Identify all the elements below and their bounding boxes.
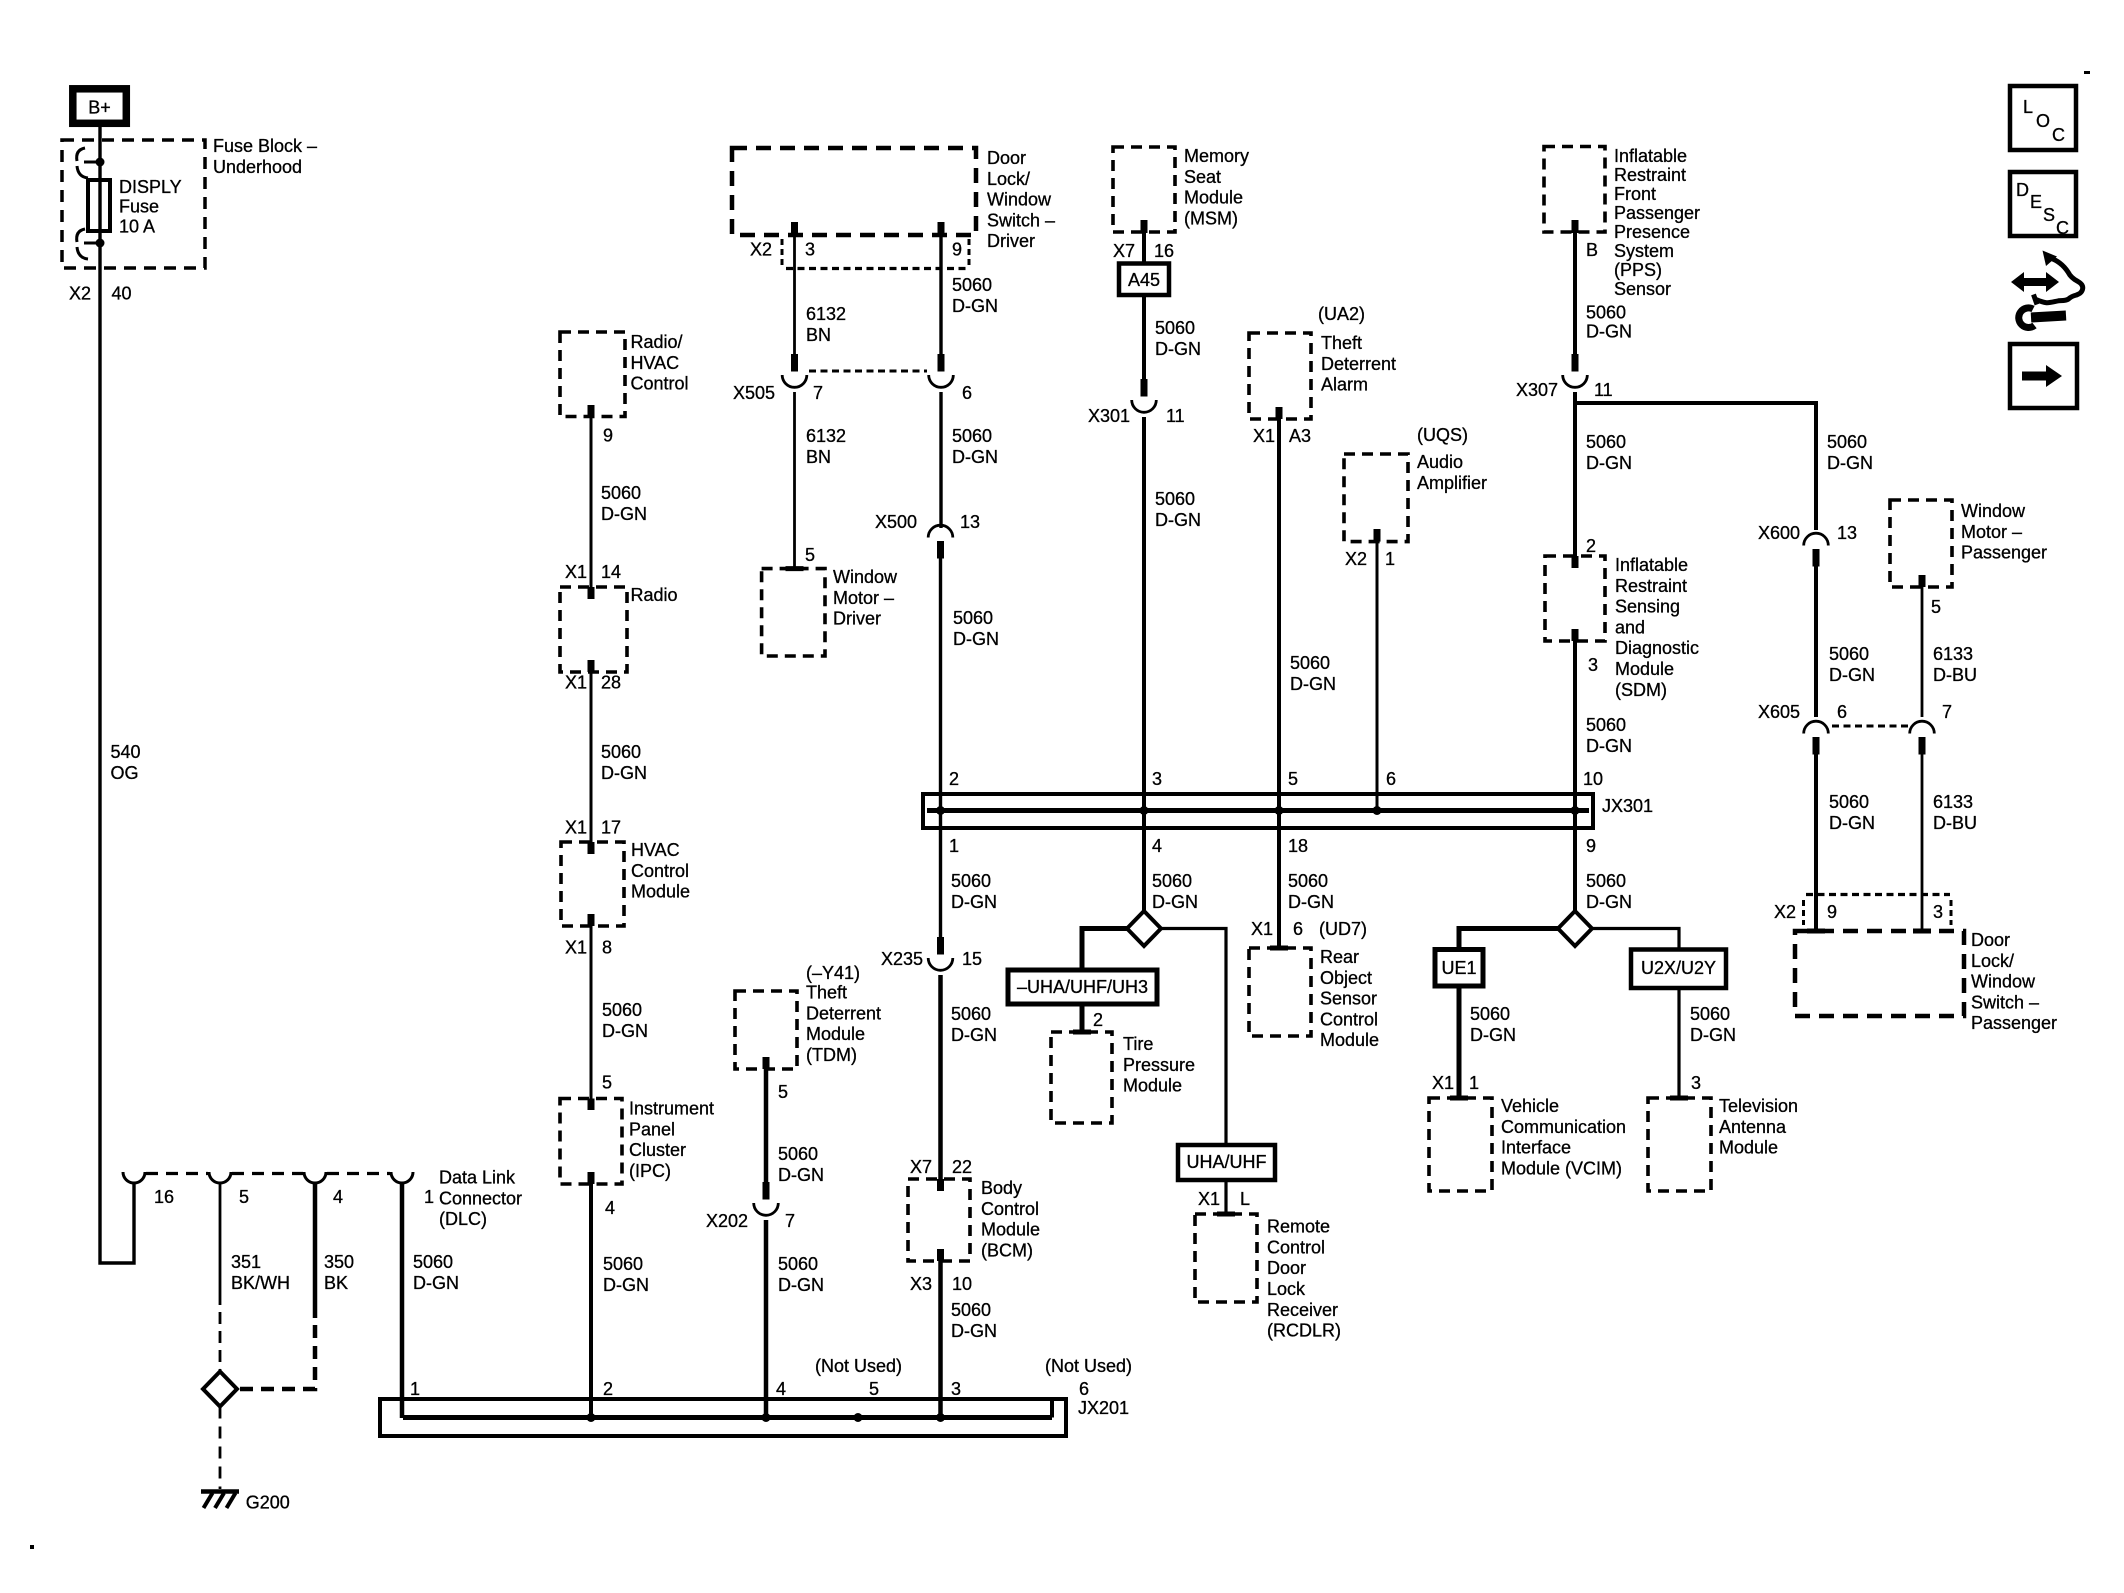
svg-text:16: 16 <box>1154 241 1174 261</box>
svg-text:Module: Module <box>806 1024 865 1044</box>
splice pack JX201 bus bar <box>403 1415 1052 1420</box>
svg-text:3: 3 <box>1933 902 1943 922</box>
svg-text:DISPLY: DISPLY <box>119 177 182 197</box>
svg-text:2: 2 <box>603 1379 613 1399</box>
passenger switch ticks <box>1807 929 1825 934</box>
TPM tick <box>1073 1030 1091 1035</box>
svg-text:C: C <box>2056 218 2069 238</box>
wire 6132 BN upper <box>793 235 796 367</box>
svg-text:5: 5 <box>869 1379 879 1399</box>
svg-text:Underhood: Underhood <box>213 157 302 177</box>
svg-text:9: 9 <box>1827 902 1837 922</box>
PPS Sensor dashed box <box>1544 147 1605 233</box>
svg-text:Motor –: Motor – <box>833 588 894 608</box>
svg-text:Window: Window <box>833 567 898 587</box>
Radio stub bottom <box>588 660 595 672</box>
svg-text:351: 351 <box>231 1252 261 1272</box>
svg-text:5060: 5060 <box>1586 432 1626 452</box>
svg-text:9: 9 <box>603 426 613 446</box>
svg-text:5060: 5060 <box>1829 792 1869 812</box>
svg-text:and: and <box>1615 617 1645 637</box>
svg-text:Door: Door <box>1267 1258 1306 1278</box>
wire JX301 pin4 to splice diamond <box>1142 811 1146 913</box>
passenger switch connector dashes <box>1806 893 1950 896</box>
svg-text:Lock/: Lock/ <box>1971 951 2014 971</box>
svg-text:(UA2): (UA2) <box>1318 304 1365 324</box>
svg-text:7: 7 <box>1942 702 1952 722</box>
TDA stub <box>1276 407 1283 419</box>
wire MSM to A45 <box>1142 232 1146 264</box>
svg-text:D-GN: D-GN <box>1829 813 1875 833</box>
svg-text:BK/WH: BK/WH <box>231 1273 290 1293</box>
HVAC stub bottom <box>588 914 595 926</box>
svg-text:(Not Used): (Not Used) <box>815 1356 902 1376</box>
PPS stub <box>1572 220 1579 233</box>
svg-text:D-GN: D-GN <box>952 296 998 316</box>
splice diamond UE1 <box>1558 911 1592 946</box>
svg-text:Seat: Seat <box>1184 167 1221 187</box>
inline connector X235 pin 15 <box>937 937 944 955</box>
wire PPS to X307 <box>1573 232 1577 371</box>
pin 9 stub <box>588 405 595 417</box>
svg-text:UE1: UE1 <box>1441 958 1476 978</box>
svg-text:22: 22 <box>952 1157 972 1177</box>
SDM dashed box <box>1545 556 1605 641</box>
svg-text:D-GN: D-GN <box>952 447 998 467</box>
svg-text:40: 40 <box>112 284 132 304</box>
svg-text:Sensor: Sensor <box>1614 279 1671 299</box>
svg-text:5: 5 <box>805 545 815 565</box>
svg-text:Inflatable: Inflatable <box>1614 146 1687 166</box>
svg-text:Switch –: Switch – <box>987 210 1055 230</box>
svg-text:A45: A45 <box>1128 270 1160 290</box>
splice diamond UHA <box>1127 911 1161 946</box>
svg-text:6133: 6133 <box>1933 644 1973 664</box>
DLC connector dashed line <box>146 1172 208 1175</box>
svg-text:JX301: JX301 <box>1602 796 1653 816</box>
Instrument Panel Cluster dashed box <box>560 1099 622 1185</box>
svg-text:10: 10 <box>952 1274 972 1294</box>
svg-text:1: 1 <box>424 1187 434 1207</box>
svg-text:1: 1 <box>949 836 959 856</box>
WMP stub <box>1919 575 1926 587</box>
svg-text:Radio: Radio <box>631 585 678 605</box>
wire 5060 D-GN BCM to JX201 <box>938 1261 943 1418</box>
svg-text:Module: Module <box>631 882 690 902</box>
pin 9 stub driver <box>938 222 945 236</box>
svg-text:13: 13 <box>1837 523 1857 543</box>
svg-text:5060: 5060 <box>603 1254 643 1274</box>
svg-text:Rear: Rear <box>1320 947 1359 967</box>
svg-text:(TDM): (TDM) <box>806 1045 857 1065</box>
svg-text:Amplifier: Amplifier <box>1417 473 1487 493</box>
svg-text:7: 7 <box>785 1211 795 1231</box>
svg-text:U2X/U2Y: U2X/U2Y <box>1641 958 1716 978</box>
svg-text:BN: BN <box>806 447 831 467</box>
svg-text:D-GN: D-GN <box>951 892 997 912</box>
svg-text:Theft: Theft <box>806 983 847 1003</box>
svg-text:11: 11 <box>1166 406 1185 426</box>
svg-text:D-GN: D-GN <box>1290 674 1336 694</box>
fuse block dashed box <box>62 140 205 268</box>
svg-text:Door: Door <box>987 148 1026 168</box>
svg-text:9: 9 <box>952 240 962 260</box>
svg-text:(SDM): (SDM) <box>1615 680 1667 700</box>
svg-text:Lock/: Lock/ <box>987 169 1030 189</box>
wire JX301 pin9 to splice diamond <box>1573 811 1577 913</box>
svg-text:X600: X600 <box>1758 523 1800 543</box>
svg-text:–UHA/UHF/UH3: –UHA/UHF/UH3 <box>1017 977 1148 997</box>
svg-text:4: 4 <box>605 1198 615 1218</box>
svg-text:(PPS): (PPS) <box>1614 260 1662 280</box>
Theft Deterrent Alarm dashed box <box>1249 333 1311 419</box>
svg-text:2: 2 <box>1093 1010 1103 1030</box>
svg-text:Module: Module <box>1615 659 1674 679</box>
svg-text:3: 3 <box>951 1379 961 1399</box>
splice pack JX201 outer box <box>380 1399 1066 1436</box>
svg-text:Fuse: Fuse <box>119 197 159 217</box>
svg-text:4: 4 <box>776 1379 786 1399</box>
TDM stub <box>763 1057 770 1069</box>
inline connector X500 pin 13 <box>937 541 944 559</box>
wire 540 OG trunk to DLC pin 16 <box>100 268 134 1263</box>
BCM stub bottom <box>937 1249 944 1261</box>
connector code box A45 <box>1119 264 1169 296</box>
svg-text:HVAC: HVAC <box>631 840 680 860</box>
svg-text:B: B <box>1586 240 1598 260</box>
wire splice to UE1 <box>1459 929 1558 951</box>
HVAC stub top <box>588 842 595 854</box>
svg-text:3: 3 <box>805 240 815 260</box>
inline connector X307 pin 11 <box>1572 354 1579 372</box>
svg-text:Module: Module <box>1719 1138 1778 1158</box>
svg-text:Object: Object <box>1320 968 1372 988</box>
svg-text:Receiver: Receiver <box>1267 1300 1338 1320</box>
svg-text:Control: Control <box>631 861 689 881</box>
svg-text:Passenger: Passenger <box>1614 203 1700 223</box>
svg-text:BN: BN <box>806 325 831 345</box>
svg-text:5060: 5060 <box>602 1000 642 1020</box>
SDM stub top <box>1572 556 1579 568</box>
ROS tick <box>1270 946 1288 951</box>
svg-text:X2: X2 <box>1345 549 1367 569</box>
svg-text:X1: X1 <box>565 938 587 958</box>
svg-text:17: 17 <box>601 818 621 838</box>
svg-text:5060: 5060 <box>601 483 641 503</box>
icon hotlink wrench <box>2019 308 2035 328</box>
svg-text:D-BU: D-BU <box>1933 813 1977 833</box>
svg-text:Module: Module <box>1320 1030 1379 1050</box>
svg-text:6: 6 <box>1837 702 1847 722</box>
svg-text:Sensor: Sensor <box>1320 989 1377 1009</box>
Radio/HVAC Control dashed box <box>560 332 625 417</box>
svg-text:5060: 5060 <box>1829 644 1869 664</box>
wire JX301 pin18 to ROS <box>1277 811 1281 949</box>
IPC stub top <box>588 1099 595 1111</box>
svg-text:Memory: Memory <box>1184 146 1249 166</box>
svg-text:D: D <box>2016 180 2029 200</box>
svg-text:X2: X2 <box>69 284 91 304</box>
svg-text:G200: G200 <box>246 1493 290 1513</box>
DLC cup pin 16 <box>123 1172 145 1183</box>
wire 6133 D-BU WMP to X605 <box>1921 587 1924 717</box>
icon box DESC <box>2010 172 2076 236</box>
Door Lock/Window Switch Driver dashed box <box>732 148 976 235</box>
svg-text:Control: Control <box>1267 1237 1325 1257</box>
svg-text:X500: X500 <box>875 512 917 532</box>
svg-text:Motor –: Motor – <box>1961 522 2022 542</box>
icon hotlink double arrow <box>2011 272 2059 292</box>
option box UHA/UHF <box>1178 1145 1275 1180</box>
svg-text:Data Link: Data Link <box>439 1168 516 1188</box>
svg-text:D-GN: D-GN <box>1690 1025 1736 1045</box>
wire JX301 pin1 to X235 <box>939 811 942 951</box>
splice pack JX301 outer box <box>923 794 1593 828</box>
Rear Object Sensor Control Module dashed box <box>1249 948 1311 1036</box>
svg-text:X2: X2 <box>1774 902 1796 922</box>
svg-text:5060: 5060 <box>953 608 993 628</box>
svg-text:D-GN: D-GN <box>602 1021 648 1041</box>
svg-text:6132: 6132 <box>806 426 846 446</box>
svg-text:Theft: Theft <box>1321 333 1362 353</box>
audio amp stub <box>1374 529 1381 542</box>
wire 6132 BN lower <box>793 392 796 569</box>
svg-text:6133: 6133 <box>1933 792 1973 812</box>
svg-text:350: 350 <box>324 1252 354 1272</box>
svg-text:Module: Module <box>981 1220 1040 1240</box>
svg-text:D-GN: D-GN <box>601 504 647 524</box>
window motor driver tick <box>786 566 804 571</box>
svg-text:Antenna: Antenna <box>1719 1117 1787 1137</box>
wire splice to UHA/UHF box <box>1161 929 1226 1146</box>
wire 5060 D-GN audio amp to JX301 <box>1376 542 1379 810</box>
svg-text:(MSM): (MSM) <box>1184 208 1238 228</box>
svg-text:6: 6 <box>1079 1379 1089 1399</box>
svg-text:D-GN: D-GN <box>1155 339 1201 359</box>
svg-text:Remote: Remote <box>1267 1217 1330 1237</box>
svg-text:(UD7): (UD7) <box>1319 919 1367 939</box>
svg-text:X1: X1 <box>565 673 587 693</box>
svg-text:D-GN: D-GN <box>413 1273 459 1293</box>
svg-text:X235: X235 <box>881 949 923 969</box>
svg-text:Connector: Connector <box>439 1188 522 1208</box>
svg-text:1: 1 <box>410 1379 420 1399</box>
svg-text:Body: Body <box>981 1178 1022 1198</box>
svg-text:Interface: Interface <box>1501 1138 1571 1158</box>
svg-text:X1: X1 <box>565 562 587 582</box>
svg-text:D-GN: D-GN <box>778 1275 824 1295</box>
svg-text:Radio/: Radio/ <box>631 332 683 352</box>
svg-text:Pressure: Pressure <box>1123 1055 1195 1075</box>
svg-text:14: 14 <box>601 562 621 582</box>
svg-text:L: L <box>2023 97 2033 117</box>
fuse clip bottom <box>84 242 100 245</box>
svg-text:Audio: Audio <box>1417 452 1463 472</box>
Door Lock/Window Switch Passenger dashed box <box>1795 931 1964 1016</box>
wire 5060 D-GN X500 to JX301 <box>939 558 942 811</box>
wire 6133 D-BU X605 to passenger switch <box>1921 754 1924 931</box>
svg-text:Window: Window <box>987 190 1052 210</box>
svg-text:(–Y41): (–Y41) <box>806 963 860 983</box>
svg-text:9: 9 <box>1586 836 1596 856</box>
svg-text:D-GN: D-GN <box>1829 665 1875 685</box>
svg-text:5060: 5060 <box>778 1254 818 1274</box>
svg-text:5060: 5060 <box>601 742 641 762</box>
VCIM dashed box <box>1429 1098 1492 1191</box>
wire 5060 D-GN TDM to X202 <box>764 1069 769 1195</box>
svg-text:5060: 5060 <box>413 1252 453 1272</box>
JX201 junction dots <box>587 1413 596 1422</box>
svg-text:5060: 5060 <box>1690 1004 1730 1024</box>
svg-text:Window: Window <box>1961 501 2026 521</box>
svg-text:5060: 5060 <box>951 1300 991 1320</box>
wire 5060 D-GN IPC to JX201 <box>589 1184 593 1418</box>
scan mark top right <box>2084 71 2090 74</box>
svg-text:X202: X202 <box>706 1211 748 1231</box>
svg-text:5060: 5060 <box>1290 653 1330 673</box>
svg-text:Module: Module <box>1184 188 1243 208</box>
wire 350 BK from DLC pin 4 <box>313 1183 318 1318</box>
svg-text:6: 6 <box>1386 769 1396 789</box>
icon hotlink curve arrow <box>2036 258 2083 303</box>
svg-text:5060: 5060 <box>1586 303 1626 323</box>
svg-text:5060: 5060 <box>778 1144 818 1164</box>
wire 5060 D-GN from DLC pin 1 to JX201 <box>400 1183 405 1418</box>
svg-text:Presence: Presence <box>1614 222 1690 242</box>
svg-text:A3: A3 <box>1289 426 1311 446</box>
TAM tick <box>1670 1096 1688 1101</box>
inline connector X505 pin 7 <box>791 354 798 372</box>
wire 5060 D-GN HVAC to IPC <box>590 926 593 1099</box>
splice pack JX301 bus bar <box>927 808 1589 813</box>
svg-text:D-GN: D-GN <box>951 1321 997 1341</box>
svg-text:D-GN: D-GN <box>1152 892 1198 912</box>
VCIM tick <box>1450 1096 1468 1101</box>
option box U2X/U2Y <box>1631 950 1726 989</box>
wire dashed to ground <box>219 1407 222 1490</box>
svg-text:Passenger: Passenger <box>1971 1013 2057 1033</box>
inline connector X600 pin 13 <box>1813 549 1820 567</box>
svg-text:OG: OG <box>111 763 139 783</box>
svg-text:Instrument: Instrument <box>629 1099 714 1119</box>
svg-text:Restraint: Restraint <box>1615 576 1687 596</box>
svg-text:Control: Control <box>1320 1009 1378 1029</box>
svg-text:Deterrent: Deterrent <box>1321 354 1396 374</box>
svg-text:3: 3 <box>1588 655 1598 675</box>
svg-text:Module: Module <box>1123 1076 1182 1096</box>
Window Motor Passenger dashed box <box>1890 500 1952 587</box>
wire 5060 D-GN X605 to passenger switch <box>1814 754 1818 931</box>
wire 5060 D-GN TDA to JX301 <box>1277 419 1281 811</box>
svg-text:HVAC: HVAC <box>631 353 680 373</box>
wire UE1 to VCIM <box>1457 986 1462 1098</box>
svg-text:Television: Television <box>1719 1096 1798 1116</box>
svg-text:5: 5 <box>1288 769 1298 789</box>
svg-text:Sensing: Sensing <box>1615 597 1680 617</box>
Body Control Module dashed box <box>908 1179 970 1261</box>
svg-text:D-BU: D-BU <box>1933 665 1977 685</box>
svg-text:4: 4 <box>333 1187 343 1207</box>
svg-text:D-GN: D-GN <box>1586 892 1632 912</box>
svg-text:X1: X1 <box>1198 1189 1220 1209</box>
wire 5060 D-GN X202 to JX201 <box>764 1220 769 1418</box>
DLC cup pin 1 <box>391 1172 413 1183</box>
svg-text:3: 3 <box>1152 769 1162 789</box>
ground symbol G200 <box>201 1489 239 1494</box>
svg-text:5: 5 <box>239 1187 249 1207</box>
DLC cup pin 5 <box>209 1172 231 1183</box>
X605 dashed link <box>1832 725 1908 728</box>
svg-text:Driver: Driver <box>833 609 881 629</box>
svg-text:5060: 5060 <box>951 1004 991 1024</box>
inline connector X605 pin 6 <box>1813 737 1820 755</box>
svg-text:D-GN: D-GN <box>951 1025 997 1045</box>
svg-text:5: 5 <box>778 1082 788 1102</box>
svg-text:X505: X505 <box>733 383 775 403</box>
svg-text:D-GN: D-GN <box>601 763 647 783</box>
svg-text:Panel: Panel <box>629 1119 675 1139</box>
svg-text:5060: 5060 <box>1586 871 1626 891</box>
svg-text:X2: X2 <box>750 240 772 260</box>
svg-text:Front: Front <box>1614 184 1656 204</box>
svg-text:5060: 5060 <box>952 275 992 295</box>
svg-text:10: 10 <box>1583 769 1603 789</box>
svg-text:X1: X1 <box>1251 919 1273 939</box>
BCM stub top <box>937 1179 944 1191</box>
MSM stub <box>1141 220 1148 233</box>
svg-text:5060: 5060 <box>1827 432 1867 452</box>
wire UHA/UHF to RCDLR <box>1224 1180 1227 1214</box>
svg-text:15: 15 <box>962 949 982 969</box>
svg-text:Switch –: Switch – <box>1971 992 2039 1012</box>
svg-text:X1: X1 <box>1432 1073 1454 1093</box>
wire 351 BK/WH from DLC pin 5 <box>219 1183 222 1305</box>
svg-text:X3: X3 <box>910 1274 932 1294</box>
svg-text:540: 540 <box>111 742 141 762</box>
svg-text:2: 2 <box>949 769 959 789</box>
Audio Amplifier dashed box <box>1344 454 1408 542</box>
svg-text:6132: 6132 <box>806 304 846 324</box>
svg-text:X7: X7 <box>1113 241 1135 261</box>
svg-text:D-GN: D-GN <box>1586 453 1632 473</box>
svg-text:Window: Window <box>1971 972 2036 992</box>
svg-text:2: 2 <box>1586 536 1596 556</box>
svg-text:4: 4 <box>1152 836 1162 856</box>
svg-text:S: S <box>2043 205 2055 225</box>
Radio dashed box <box>560 587 627 672</box>
inline connector X301 pin 11 <box>1141 379 1148 397</box>
svg-text:E: E <box>2030 192 2042 212</box>
svg-text:D-GN: D-GN <box>1586 736 1632 756</box>
icon box arrow <box>2010 344 2077 408</box>
svg-text:Module (VCIM): Module (VCIM) <box>1501 1158 1622 1178</box>
svg-text:10 A: 10 A <box>119 216 155 236</box>
svg-text:D-GN: D-GN <box>953 629 999 649</box>
wire UHA box to TPM <box>1080 1004 1085 1032</box>
svg-text:Communication: Communication <box>1501 1117 1626 1137</box>
svg-text:28: 28 <box>601 673 621 693</box>
svg-text:L: L <box>1240 1189 1250 1209</box>
svg-text:D-GN: D-GN <box>603 1275 649 1295</box>
svg-text:(IPC): (IPC) <box>629 1161 671 1181</box>
svg-text:18: 18 <box>1288 836 1308 856</box>
inline connector X505 pin 6 <box>938 354 945 372</box>
svg-text:Diagnostic: Diagnostic <box>1615 638 1699 658</box>
wire 5060 D-GN X307 to SDM <box>1573 392 1577 556</box>
svg-text:5060: 5060 <box>1155 489 1195 509</box>
svg-text:8: 8 <box>602 938 612 958</box>
svg-text:Tire: Tire <box>1123 1034 1153 1054</box>
